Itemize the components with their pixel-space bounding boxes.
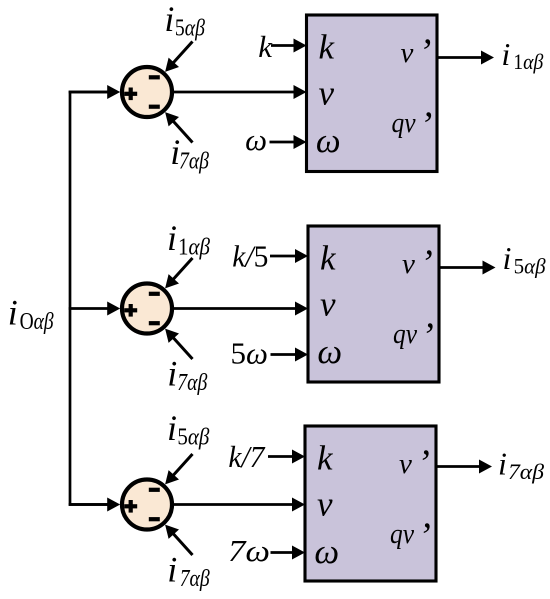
svg-text:1αβ: 1αβ xyxy=(513,49,543,74)
pin label qv-prime output of U2 xyxy=(393,316,434,358)
svg-text:qv: qv xyxy=(390,518,414,550)
pin label omega of U3 xyxy=(314,532,339,571)
wire: plus input arrow from trunk into summing junction S1 xyxy=(69,85,121,99)
pin label v-prime output of U2 xyxy=(402,243,433,285)
pin label v-prime output of U1 xyxy=(401,32,432,74)
svg-text:7αβ: 7αβ xyxy=(180,565,211,592)
svg-text:7αβ: 7αβ xyxy=(179,148,210,175)
svg-text:’: ’ xyxy=(420,243,433,285)
wire: minus input arrow from top label into S2 xyxy=(165,258,192,288)
svg-text:v: v xyxy=(401,37,414,69)
pin label k of U1 xyxy=(319,28,336,67)
pin label v of U2 xyxy=(320,285,336,324)
svg-text:7ω: 7ω xyxy=(228,533,270,568)
wire: error signal from S3 into v input of block U3 xyxy=(171,498,306,512)
svg-text:i: i xyxy=(8,293,18,333)
svg-text:i: i xyxy=(167,408,177,448)
wire: k input arrow into U2 xyxy=(270,249,308,263)
pin label v of U1 xyxy=(319,74,335,113)
wire: error signal from S2 into v input of block U2 xyxy=(171,302,309,316)
svg-text:k: k xyxy=(258,29,273,64)
summing junction S2 xyxy=(122,284,172,334)
svg-text:7αβ: 7αβ xyxy=(508,459,544,484)
wire: filtered output arrow from U2 xyxy=(439,261,496,275)
svg-text:’: ’ xyxy=(421,316,434,358)
svg-text:qv: qv xyxy=(392,107,416,139)
summing junction S1 xyxy=(122,67,172,117)
wire: omega input arrow into U3 xyxy=(271,546,306,560)
svg-text:k/7: k/7 xyxy=(228,439,265,474)
pin label qv-prime output of U3 xyxy=(390,516,431,558)
node: frequency input label omega for U1 xyxy=(245,122,267,157)
svg-text:’: ’ xyxy=(419,32,432,74)
node: harmonic current label i_1ab above S2 xyxy=(167,218,211,261)
svg-text:i: i xyxy=(503,240,512,276)
wire: filtered output arrow from U1 xyxy=(437,51,494,65)
wire: minus input arrow from bottom label into S2 xyxy=(165,329,192,359)
svg-text:5αβ: 5αβ xyxy=(514,254,546,279)
svg-text:qv: qv xyxy=(393,318,417,350)
summing junction S3 xyxy=(122,480,172,530)
wire: input trunk from node iOab with corners into rows 1 and 3 xyxy=(70,92,108,505)
node: harmonic current label i_7ab below S3 xyxy=(167,550,210,593)
pin label k of U2 xyxy=(320,239,337,278)
node: harmonic current label i_7ab below S2 xyxy=(167,354,208,397)
svg-text:v: v xyxy=(402,248,415,280)
node: output current label i_5ab of row 2 xyxy=(503,240,546,279)
block U2: SOGI-QSG filter block xyxy=(308,226,439,382)
svg-text:v: v xyxy=(319,74,335,113)
wire: plus input arrow from trunk into summing junction S2 xyxy=(69,302,121,316)
svg-text:k/5: k/5 xyxy=(232,239,268,274)
node: gain input label k/7 for U3 xyxy=(228,439,265,474)
pin label v of U3 xyxy=(317,485,333,524)
svg-text:’: ’ xyxy=(420,105,433,147)
svg-text:ω: ω xyxy=(317,332,342,371)
svg-text:v: v xyxy=(320,285,336,324)
svg-text:i: i xyxy=(164,0,174,39)
wire: minus input arrow from top label into S3 xyxy=(165,454,192,484)
svg-text:ω: ω xyxy=(245,122,267,157)
wire: minus input arrow from bottom label into S1 xyxy=(165,112,192,142)
wire: error signal from S1 into v input of block U1 xyxy=(171,85,307,99)
node: output current label i_1ab of row 1 xyxy=(501,36,543,74)
node: gain input label k/5 for U2 xyxy=(232,239,268,274)
wire: omega input arrow into U2 xyxy=(271,348,309,362)
svg-text:7αβ: 7αβ xyxy=(177,369,208,396)
svg-text:i: i xyxy=(167,218,177,258)
svg-text:i: i xyxy=(498,446,507,482)
wire: k input arrow into U1 xyxy=(271,39,307,53)
svg-text:’: ’ xyxy=(418,516,431,558)
node: harmonic current label i_5ab above S1 xyxy=(164,0,205,42)
svg-text:k: k xyxy=(317,439,334,478)
pin label v-prime output of U3 xyxy=(399,443,430,485)
svg-text:5ω: 5ω xyxy=(231,336,268,371)
svg-text:ω: ω xyxy=(316,121,341,160)
node iOab: overall input current label xyxy=(8,293,55,336)
node: harmonic current label i_5ab above S3 xyxy=(167,408,210,451)
svg-text:i: i xyxy=(167,354,177,394)
wire: minus input arrow from bottom label into S3 xyxy=(165,525,192,555)
node: gain input label k for U1 xyxy=(258,29,273,64)
wire: plus input arrow from trunk into summing junction S3 xyxy=(69,498,121,512)
svg-text:5αβ: 5αβ xyxy=(177,424,210,451)
svg-text:i: i xyxy=(501,36,510,72)
svg-text:i: i xyxy=(167,550,177,590)
node: harmonic current label i_7ab below S1 xyxy=(170,132,209,175)
svg-text:v: v xyxy=(399,448,412,480)
svg-text:k: k xyxy=(320,239,337,278)
pin label qv-prime output of U1 xyxy=(392,105,433,147)
svg-text:Oαβ: Oαβ xyxy=(20,308,55,335)
block U3: SOGI-QSG filter block xyxy=(305,426,436,581)
wire: filtered output arrow from U3 xyxy=(436,460,492,474)
block U1: SOGI-QSG filter block xyxy=(307,15,438,172)
node: frequency input label 7omega for U3 xyxy=(228,533,270,568)
wire: minus input arrow from top label into S1 xyxy=(165,42,192,72)
wire: omega input arrow into U1 xyxy=(270,135,307,149)
svg-text:1αβ: 1αβ xyxy=(178,234,211,261)
pin label omega of U2 xyxy=(317,332,342,371)
svg-text:ω: ω xyxy=(314,532,339,571)
svg-text:’: ’ xyxy=(417,443,430,485)
pin label k of U3 xyxy=(317,439,334,478)
node: frequency input label 5omega for U2 xyxy=(231,336,268,371)
wire: k input arrow into U3 xyxy=(268,450,305,464)
node: output current label i_7ab of row 3 xyxy=(498,446,544,485)
svg-text:v: v xyxy=(317,485,333,524)
svg-text:5αβ: 5αβ xyxy=(175,15,206,42)
pin label omega of U1 xyxy=(316,121,341,160)
svg-text:k: k xyxy=(319,28,336,67)
